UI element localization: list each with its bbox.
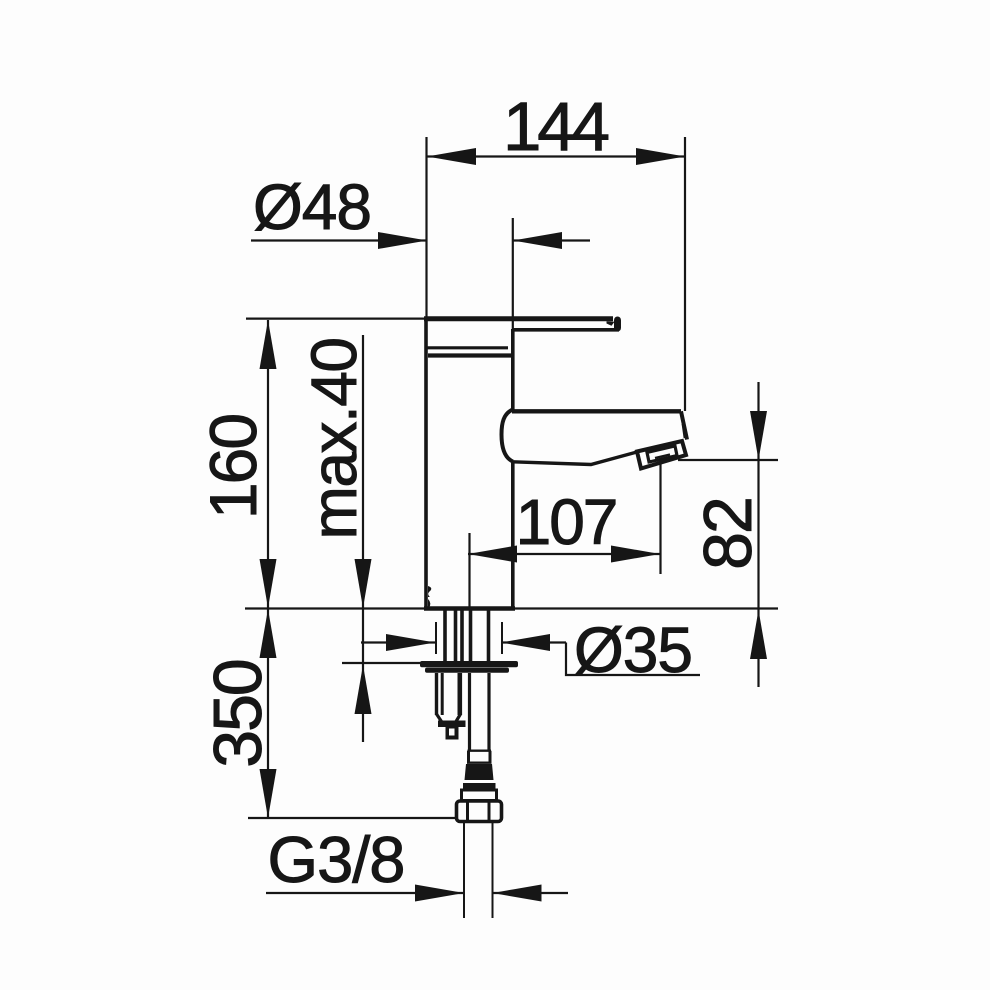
hex nut facet left [466, 802, 469, 821]
extension line 350 bottom [248, 817, 457, 819]
pop-up housing right [457, 673, 462, 715]
arrow 350 top [260, 609, 277, 658]
extension line G3/8 left [463, 822, 465, 918]
extension line 144 left [425, 137, 427, 318]
dimension line 144 [427, 155, 685, 157]
arrow max.40 bottom [355, 665, 372, 714]
arrow 350 bottom [260, 769, 277, 818]
arrow 82 top [750, 411, 767, 460]
extension line G3/8 right [492, 822, 494, 918]
cap ring thick line [428, 353, 512, 357]
arrow Ø48 right [513, 232, 562, 249]
svg-text:144: 144 [503, 88, 609, 165]
cap ring thin line [427, 346, 508, 349]
dimension line Ø48 left [251, 239, 427, 241]
extension line top of faucet [246, 318, 427, 320]
arrow 107 right [611, 546, 660, 563]
arrow 107 left [468, 546, 517, 563]
extension line 107 right [659, 464, 661, 574]
arrow G3/8 right [493, 885, 542, 902]
spout underside [513, 452, 637, 465]
svg-text:82: 82 [690, 498, 766, 570]
svg-text:G3/8: G3/8 [268, 823, 405, 896]
pipe collar walls [469, 751, 491, 763]
pop-up housing outer left [435, 673, 438, 715]
body base notch [428, 599, 430, 608]
faucet body right edge upper [511, 329, 515, 410]
lever bottom edge [512, 328, 619, 332]
nut top box [462, 790, 497, 801]
arrow max.40 top [355, 559, 372, 608]
dimension line Ø35 right [501, 641, 566, 643]
extension line 107 centerline [468, 533, 470, 608]
deck line thick segment under body [424, 606, 515, 611]
pop-up stem slot [449, 729, 455, 736]
arrow 160 top [260, 320, 277, 369]
body notch [428, 586, 431, 597]
dimension line 107 [468, 553, 660, 555]
aerator slot [647, 446, 677, 462]
faucet body left edge [424, 317, 428, 608]
pipe joint line 2 [467, 762, 492, 764]
arrow Ø35 right [501, 634, 550, 651]
dimension line G3/8 left [266, 892, 464, 894]
dimension line G3/8 right [493, 892, 569, 894]
faucet body right edge lower [511, 461, 515, 608]
aerator outer [637, 441, 686, 469]
collar band [463, 783, 496, 789]
mounting flange upper [420, 661, 518, 667]
hex nut facet right [488, 802, 491, 821]
arrow G3/8 left [415, 885, 464, 902]
deck line [245, 607, 778, 609]
spout right edge inner line [683, 424, 685, 438]
lever tip [614, 317, 621, 332]
thread block [465, 764, 494, 780]
svg-text:Ø48: Ø48 [253, 171, 371, 243]
threaded shank lines below deck [443, 610, 447, 662]
extension line Ø48 right [512, 218, 514, 329]
supply pipe left edge [468, 673, 471, 751]
extension line 144 right [684, 137, 686, 411]
arrow 144 left [427, 148, 476, 165]
leader underline Ø35 [566, 643, 700, 676]
pop-up stem [446, 727, 459, 740]
svg-text:107: 107 [516, 486, 617, 558]
dimension line Ø48 right [513, 239, 590, 241]
spout right edge [681, 411, 687, 439]
pipe joint line [468, 750, 492, 752]
svg-text:160: 160 [196, 415, 270, 519]
extension line 82 top [678, 459, 778, 461]
lever tip inner wedge [607, 321, 615, 326]
svg-text:350: 350 [200, 660, 276, 768]
pop-up housing taper [437, 714, 461, 722]
pop-up housing inner left [441, 673, 444, 715]
mounting flange lower [425, 668, 509, 673]
arrow 144 right [636, 148, 685, 165]
extension tick Ø35 left [435, 622, 437, 654]
dimension line 82 [757, 382, 759, 687]
spout top edge [512, 409, 681, 413]
supply pipe right edge [487, 673, 490, 751]
arrow Ø35 left [386, 634, 435, 651]
arrow Ø48 left [378, 232, 427, 249]
faucet cap and lever top edge [424, 316, 613, 321]
spout left bulge [502, 410, 513, 462]
extension line max.40 bottom [342, 662, 421, 664]
arrow 82 bottom [750, 610, 767, 659]
extension tick Ø35 right [501, 622, 503, 654]
aerator slot inner line [655, 455, 670, 459]
pop-up foot [438, 721, 466, 728]
dimension line 160/350 [267, 320, 269, 818]
hex nut [457, 801, 502, 822]
arrow 160 bottom [260, 559, 277, 608]
dimension line max.40 [362, 335, 364, 742]
dimension line Ø35 left [361, 641, 435, 643]
svg-text:max.40: max.40 [298, 339, 370, 540]
